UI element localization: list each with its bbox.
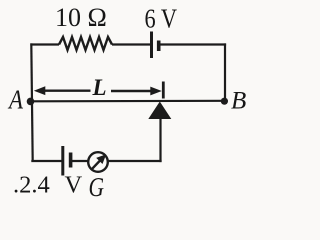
battery V1 6V long plate [150, 32, 153, 59]
svg-text:6 V: 6 V [145, 4, 178, 34]
node B dot [221, 98, 228, 105]
jockey arrow triangle [148, 102, 171, 120]
svg-text:10 Ω: 10 Ω [55, 3, 107, 32]
wire top segment right [159, 43, 226, 45]
dimension end tick [162, 82, 165, 99]
svg-text:L: L [92, 75, 107, 100]
wire bottom segment right of galvanometer [108, 160, 162, 162]
galvanometer needle arrowhead [96, 154, 106, 164]
wire middle A to B [31, 100, 225, 103]
dimension line left segment with arrowhead [37, 89, 91, 91]
wire right vertical to B [224, 43, 226, 101]
battery V1 6V short plate [157, 41, 161, 52]
svg-text:B: B [231, 88, 246, 115]
galvanometer G circle [88, 152, 108, 172]
wire top segment left [30, 43, 59, 45]
battery V2 2.4V short plate [69, 153, 73, 168]
dimension right arrowhead [150, 87, 162, 96]
wire bottom segment left [31, 160, 62, 162]
galvanometer needle [91, 160, 101, 170]
node A dot [27, 98, 35, 106]
resistor R1 10 ohm [59, 37, 112, 50]
svg-text:V: V [65, 172, 83, 199]
jockey stem wire [159, 118, 161, 162]
dimension line right segment with arrowhead [111, 90, 155, 92]
wire left vertical (top corner to bottom corner through A) [31, 43, 32, 162]
svg-text:G: G [89, 171, 105, 199]
wire top segment middle [112, 43, 150, 45]
svg-text:.2.4: .2.4 [13, 172, 50, 199]
dimension left arrowhead [34, 86, 46, 95]
battery V2 2.4V long plate [61, 146, 64, 176]
wire bottom segment between battery and galvanometer [71, 160, 89, 162]
svg-text:A: A [7, 85, 23, 115]
